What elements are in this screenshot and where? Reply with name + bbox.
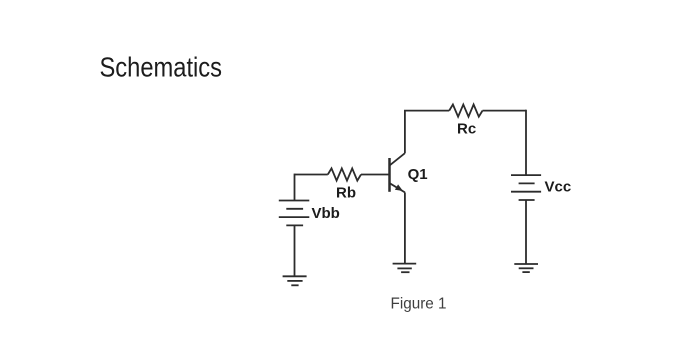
wire collector riser <box>404 111 406 154</box>
svg-text:Q1: Q1 <box>408 166 428 183</box>
resistor Rb <box>328 168 361 180</box>
wire Rb to base <box>361 174 390 176</box>
transistor Q1 <box>390 153 405 193</box>
svg-text:Vbb: Vbb <box>312 205 340 222</box>
svg-text:Rb: Rb <box>336 185 356 202</box>
wire Vbb to ground <box>294 225 296 276</box>
ground (middle, under emitter) <box>393 264 417 273</box>
wire Vbb top riser <box>294 174 296 201</box>
ground (left, under Vbb) <box>283 276 307 285</box>
battery Vcc <box>511 175 541 200</box>
wire emitter drop <box>404 192 406 263</box>
wire Vcc to ground <box>525 200 527 264</box>
svg-text:Figure 1: Figure 1 <box>391 296 447 313</box>
wire Rc to right corner <box>483 110 527 112</box>
ground (right, under Vcc) <box>514 264 538 272</box>
svg-text:Schematics: Schematics <box>100 52 223 83</box>
svg-text:Rc: Rc <box>457 121 476 138</box>
wire Vcc top riser <box>525 110 527 175</box>
wire base horizontal (node to Rb to Q1 base) <box>295 174 328 176</box>
wire top (collector to Rc) <box>404 110 449 112</box>
battery Vbb <box>279 201 310 226</box>
resistor Rc <box>449 105 482 117</box>
svg-text:Vcc: Vcc <box>545 179 572 196</box>
